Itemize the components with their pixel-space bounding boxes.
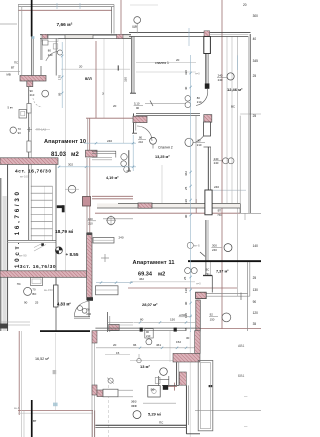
svg-text:ЗФФ: ЗФФ (131, 404, 137, 408)
stair right wall (55, 165, 57, 285)
circles apartment11 (187, 242, 193, 248)
teal marks right edge (238, 344, 248, 428)
svg-text:120: 120 (253, 311, 259, 315)
axis bubble B (68, 185, 76, 193)
svg-text:95: 95 (58, 92, 62, 96)
circles hall door (78, 306, 83, 311)
svg-text:30: 30 (186, 336, 190, 340)
red axis / pipe lines (18, 0, 261, 437)
svg-text:90: 90 (184, 301, 188, 305)
wall band y=293 right (196, 292, 250, 300)
svg-text:210: 210 (86, 312, 91, 316)
door arc hall (74, 302, 89, 317)
svg-text:+ 8.55: + 8.55 (66, 252, 79, 257)
svg-text:ЗФЗ: ЗФЗ (131, 399, 137, 403)
svg-text:ВФ: ВФ (151, 388, 155, 392)
svg-text:240: 240 (107, 139, 112, 143)
door arc bathroom (46, 51, 58, 61)
red hatch wall right: strip + band (195, 331, 201, 354)
svg-text:25: 25 (253, 74, 257, 78)
outer top wall band (40, 31, 251, 42)
svg-text:20: 20 (113, 104, 117, 108)
stair direction mark (41, 243, 44, 246)
hall door wall + white door leaf (55, 277, 57, 331)
section line A (top) (31, 0, 33, 37)
svg-text:100: 100 (88, 217, 93, 221)
svg-text:ПС: ПС (206, 272, 210, 276)
door symbol circle bedroom2 (150, 137, 157, 144)
radiator hall (96, 286, 119, 295)
construction grid lines (44, 5, 261, 437)
svg-text:18,79 мі: 18,79 мі (55, 229, 73, 235)
svg-text:7,66 м²: 7,66 м² (57, 22, 73, 28)
hall cabinet box (31, 278, 43, 286)
right wall lower verticals (247, 262, 249, 331)
svg-text:5,10: 5,10 (134, 102, 140, 106)
red hatch wall: vertical strip (87, 233, 92, 300)
svg-text:ВТ: ВТ (218, 208, 222, 212)
corridor wall x=206 lower (205, 220, 207, 260)
section line A (bottom) (31, 400, 33, 437)
svg-text:120: 120 (184, 313, 188, 318)
svg-text:Апартамент 10: Апартамент 10 (44, 139, 86, 145)
symbol circle WC (42, 90, 49, 97)
person symbol room13 (160, 368, 168, 376)
svg-text:спалня 1: спалня 1 (155, 61, 169, 65)
svg-text:25: 25 (35, 301, 39, 305)
svg-text:н=0: н=0 (196, 282, 201, 286)
bathroom walls top-left (32, 37, 57, 76)
svg-text:28,07 м²: 28,07 м² (142, 302, 158, 307)
svg-text:АВ1: АВ1 (238, 344, 245, 348)
svg-text:210: 210 (138, 140, 143, 144)
svg-text:вн-Б: вн-Б (194, 243, 200, 247)
svg-text:130: 130 (253, 288, 259, 292)
svg-text:140: 140 (253, 244, 259, 248)
toilet bedroom side (121, 154, 127, 160)
svg-text:25: 25 (184, 186, 188, 190)
circle near 240/240 top (227, 73, 234, 80)
dimension tick marks (58, 55, 192, 349)
svg-text:4,83 м²: 4,83 м² (57, 301, 71, 306)
svg-text:Апартамент 11: Апартамент 11 (133, 260, 175, 266)
svg-text:15: 15 (116, 351, 120, 355)
stair landing (8, 240, 56, 242)
wall door leaf rects (27, 104, 31, 114)
svg-text:462: 462 (184, 171, 188, 176)
svg-text:240: 240 (214, 185, 219, 189)
svg-text:вн-Б: вн-Б (14, 406, 20, 410)
level mark (55, 247, 62, 254)
marker room 16.52 (53, 370, 57, 374)
svg-text:240: 240 (119, 236, 124, 240)
door arc corridor (196, 89, 208, 106)
svg-text:ПП-1АЗ: ПП-1АЗ (36, 128, 46, 132)
bedroom divider wall y=113 (132, 113, 212, 147)
svg-text:З: З (102, 92, 104, 96)
wire: double red pipe lines (86, 158, 88, 197)
svg-text:240: 240 (212, 248, 217, 252)
bath fixtures (43, 40, 49, 45)
wall band y=390 with window (92, 385, 133, 397)
dimension texts blue (24, 58, 219, 355)
section line B (right, thick) (188, 260, 261, 262)
washer box (148, 386, 160, 397)
svg-text:25: 25 (183, 276, 187, 280)
svg-text:150: 150 (210, 317, 215, 321)
svg-text:70: 70 (86, 308, 90, 312)
svg-text:м2: м2 (71, 152, 79, 158)
svg-text:5,29 мі: 5,29 мі (148, 411, 161, 416)
corridor wall x=206 mid (207, 147, 209, 190)
svg-text:ВТ: ВТ (33, 419, 37, 423)
dim box room13 (145, 329, 153, 338)
svg-text:20: 20 (79, 65, 83, 69)
svg-text:20: 20 (113, 343, 117, 347)
axis bubble stairs (107, 217, 115, 225)
svg-text:92: 92 (210, 313, 214, 317)
svg-text:20: 20 (176, 58, 180, 62)
wall red hatch block left (20, 76, 46, 82)
corridor wall x=206 upper (206, 54, 208, 84)
svg-text:170: 170 (58, 75, 62, 80)
svg-text:25: 25 (253, 114, 257, 118)
svg-text:150: 150 (170, 318, 175, 322)
axis bubble top (134, 17, 141, 24)
room 5.29 walls (95, 385, 200, 434)
wall red hatch block small (27, 81, 33, 87)
cross mark (101, 257, 109, 259)
pillar mid right (205, 190, 212, 215)
svg-text:н=0: н=0 (195, 72, 200, 76)
svg-text:7,37 м²: 7,37 м² (216, 270, 229, 274)
svg-text:93: 93 (18, 131, 22, 135)
symbol circle left (10, 127, 16, 133)
red hatch wall: band y=271 (0, 271, 87, 278)
red hatch wall: horizontal band y=158 (0, 158, 58, 165)
pillar top right (204, 37, 211, 54)
terrace outline top-left (18, 5, 114, 76)
svg-text:210: 210 (197, 100, 202, 104)
circle bottom room (133, 411, 141, 419)
svg-text:90: 90 (24, 301, 28, 305)
svg-text:96: 96 (133, 343, 137, 347)
svg-text:240: 240 (214, 161, 219, 165)
svg-text:вн-90: вн-90 (19, 254, 27, 258)
svg-text:90: 90 (136, 106, 140, 110)
apartment11 top wall y=328 (95, 328, 200, 332)
svg-text:210: 210 (30, 93, 35, 97)
circle 300/240 (224, 244, 232, 252)
wall x=198 lower right (196, 300, 201, 331)
svg-text:152: 152 (176, 340, 181, 344)
red hatch wall above right wall (179, 372, 186, 385)
blue dim numbers right edge column (243, 3, 258, 326)
svg-text:300: 300 (253, 14, 259, 18)
svg-text:12,46 м²: 12,46 м² (227, 87, 243, 92)
svg-text:210: 210 (146, 334, 151, 338)
svg-text:ЩВ: ЩВ (132, 25, 137, 29)
shaft box (19, 110, 27, 119)
svg-text:Спалня 2: Спалня 2 (158, 145, 173, 149)
svg-text:5 вч: 5 вч (8, 106, 14, 110)
svg-text:4,19 м²: 4,19 м² (106, 176, 119, 180)
red hatch block + lines y=322 (109, 324, 119, 330)
stairwell outer walls (1, 165, 8, 331)
circle hall (24, 287, 32, 295)
svg-text:80: 80 (198, 138, 202, 142)
svg-text:20: 20 (243, 3, 247, 7)
svg-text:35: 35 (253, 322, 257, 326)
red hatch strip x=92 below (92, 331, 97, 343)
red junction block (83, 197, 91, 207)
svg-text:90: 90 (184, 214, 188, 218)
circles mid right (223, 158, 229, 164)
kitchen counter lines (92, 151, 116, 160)
wall verticals below band (176, 362, 178, 385)
svg-text:ВС: ВС (206, 267, 210, 271)
svg-text:210: 210 (48, 53, 53, 57)
bedroom1 left wall (130, 36, 136, 93)
svg-text:320: 320 (184, 70, 188, 75)
svg-text:БВ1: БВ1 (238, 374, 244, 378)
svg-text:80: 80 (140, 318, 144, 322)
svg-text:25: 25 (253, 276, 257, 280)
axis bubble small (124, 167, 130, 173)
svg-text:ПС: ПС (218, 213, 222, 217)
outlet circles bedroom1 (185, 96, 191, 102)
svg-text:вн-150: вн-150 (44, 288, 53, 292)
wire: room reference lines (0, 24, 261, 410)
wall corner black L (57, 205, 65, 208)
outer right wall (240, 34, 261, 220)
apartment divider wall y=203 (97, 203, 240, 208)
svg-text:40: 40 (184, 86, 188, 90)
stair treads (31, 186, 53, 240)
svg-text:210: 210 (197, 143, 202, 147)
L corner wall right (203, 275, 212, 277)
corridor wall verticals (29, 87, 32, 240)
right-side vertical construction lines (22, 37, 241, 437)
svg-text:40: 40 (253, 37, 257, 41)
radiator mid-left (93, 238, 114, 244)
svg-text:90: 90 (253, 300, 257, 304)
circle 92/150 (222, 313, 231, 322)
door hinge block (205, 83, 210, 88)
blue dim numbers right column inner (58, 70, 189, 331)
bottom-left wall pieces (0, 321, 30, 323)
small symbol room13 (137, 358, 141, 362)
cross circle bottom (108, 378, 113, 383)
svg-text:320: 320 (124, 77, 128, 82)
svg-text:16,52 м²: 16,52 м² (35, 357, 50, 361)
svg-text:210: 210 (88, 221, 93, 225)
svg-text:461: 461 (156, 343, 161, 347)
svg-text:ВЛЛ: ВЛЛ (85, 77, 92, 81)
svg-text:ПС: ПС (17, 282, 21, 286)
thick top wall of room 16.52 (40, 330, 90, 332)
svg-text:345: 345 (253, 59, 259, 63)
black tick marks (117, 65, 119, 70)
red hatch wall: kitchen corner (86, 150, 98, 157)
svg-text:130: 130 (184, 288, 188, 293)
door arc bedroom2 (137, 126, 152, 141)
svg-text:13 м²: 13 м² (140, 364, 151, 369)
svg-text:130: 130 (184, 199, 188, 204)
svg-text:вн-160: вн-160 (20, 174, 29, 178)
balcony outline bottom right (198, 360, 213, 430)
black cap on red strip end (87, 297, 93, 301)
svg-text:35: 35 (184, 327, 188, 331)
svg-text:462: 462 (139, 277, 144, 281)
svg-text:м2: м2 (158, 272, 165, 278)
svg-text:240: 240 (218, 78, 223, 82)
svg-text:13,25 м²: 13,25 м² (155, 155, 170, 159)
svg-text:81.03: 81.03 (51, 152, 67, 158)
blue dimension lines (32, 3, 238, 332)
hall corner wall (74, 301, 110, 332)
svg-text:302: 302 (68, 162, 73, 166)
svg-text:Зст. 16,76/30: Зст. 16,76/30 (20, 264, 56, 270)
svg-text:300: 300 (212, 243, 217, 247)
svg-text:ПС: ПС (14, 61, 18, 65)
svg-text:МВ: МВ (7, 72, 11, 76)
svg-text:ВТ: ВТ (11, 66, 15, 70)
